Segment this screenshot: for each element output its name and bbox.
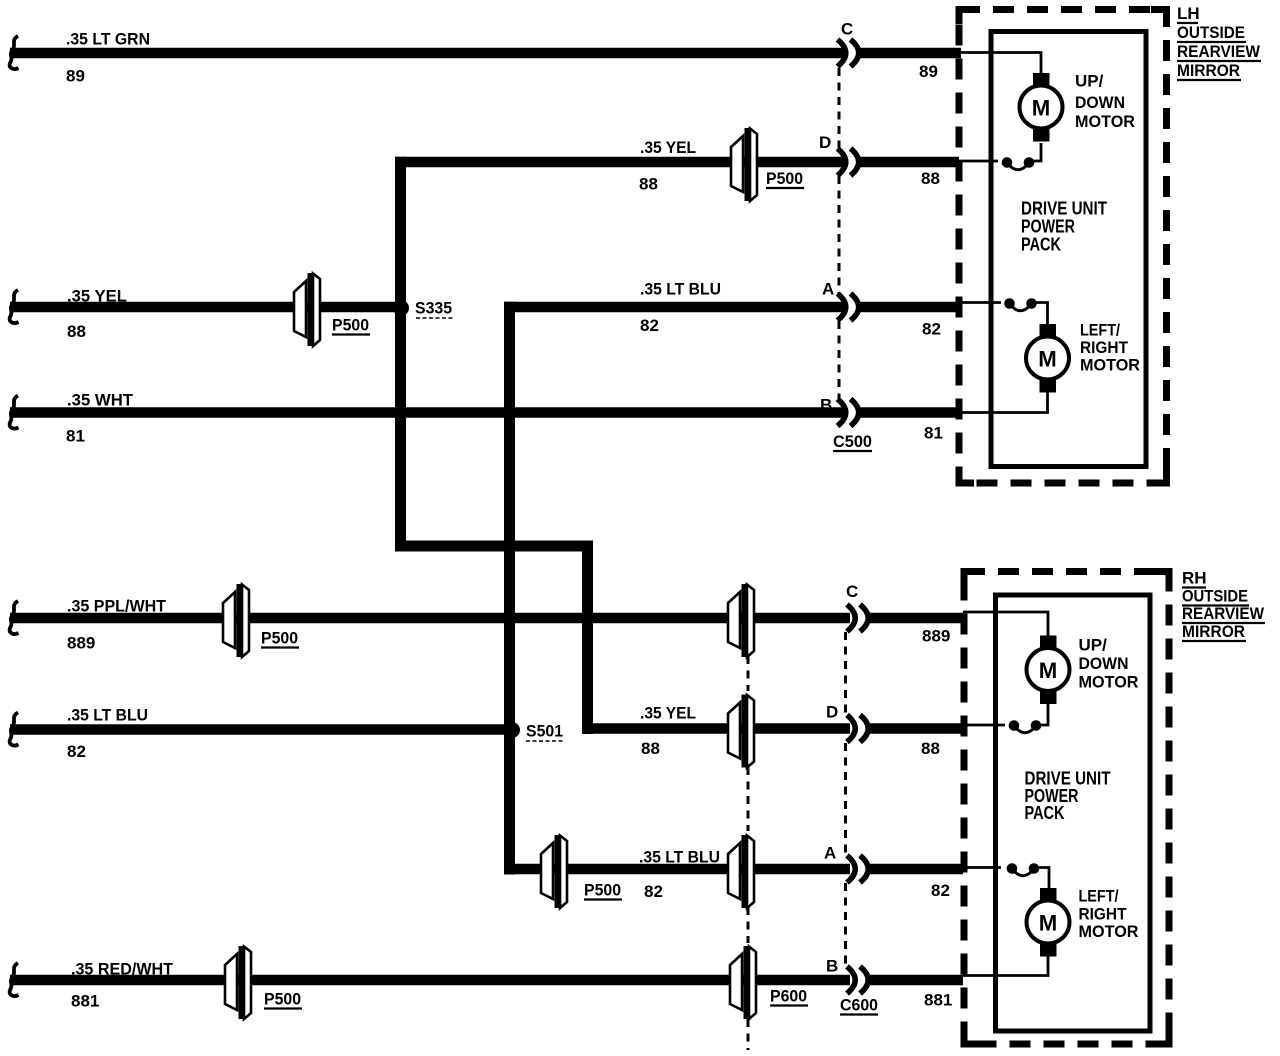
label C500 <box>833 432 872 451</box>
LH dashed box corner patches <box>959 10 1167 484</box>
dashed connector line P600 <box>747 656 750 1050</box>
svg-text:88: 88 <box>921 169 940 188</box>
label P500 row2 <box>766 169 804 188</box>
wire continuation squiggle w8 <box>10 963 19 996</box>
RH dashed box corner patches <box>964 572 1169 1045</box>
RH left/right motor wiring top with contact dots <box>963 863 1049 889</box>
wire .35 RED/WHT circuit 881 <box>10 975 850 986</box>
label S335 <box>415 299 453 319</box>
connector P500 on row3 <box>294 273 320 346</box>
label DRIVE UNIT POWER PACK (RH) <box>1025 769 1111 824</box>
svg-text:UP/: UP/ <box>1079 636 1108 655</box>
wire continuation squiggle w4 <box>10 396 19 429</box>
inline connector C500 pin A chevrons <box>838 294 859 321</box>
motor M up/down (LH) <box>1020 73 1063 142</box>
svg-text:B: B <box>826 957 838 976</box>
svg-text:DOWN: DOWN <box>1079 654 1129 673</box>
wire 88 to RH mirror <box>870 723 963 734</box>
svg-text:.35 PPL/WHT: .35 PPL/WHT <box>67 597 167 616</box>
svg-text:.35 LT BLU: .35 LT BLU <box>640 280 721 299</box>
inline connector C600 pin A chevrons <box>847 856 868 883</box>
svg-text:88: 88 <box>639 175 658 194</box>
svg-text:C: C <box>846 582 858 601</box>
wire .35 YEL circuit 88 row2 from trunk <box>395 157 847 168</box>
svg-text:.35 LT BLU: .35 LT BLU <box>639 848 720 867</box>
label DRIVE UNIT POWER PACK (LH) <box>1021 199 1107 255</box>
svg-text:P600: P600 <box>770 987 807 1006</box>
label P600 <box>770 987 808 1006</box>
svg-text:89: 89 <box>66 67 85 86</box>
connector P600 on row5 <box>728 584 754 657</box>
svg-text:P500: P500 <box>584 881 621 900</box>
svg-text:MOTOR: MOTOR <box>1079 673 1139 692</box>
connector P600 on row7 <box>728 835 754 908</box>
label RH OUTSIDE REARVIEW MIRROR <box>1182 569 1265 642</box>
inline connector C500 pin B chevrons <box>838 399 859 426</box>
svg-text:S335: S335 <box>415 299 452 318</box>
svg-text:889: 889 <box>67 634 95 653</box>
svg-text:881: 881 <box>71 992 99 1011</box>
svg-text:.35 RED/WHT: .35 RED/WHT <box>71 960 174 979</box>
svg-text:MIRROR: MIRROR <box>1182 622 1245 641</box>
svg-text:81: 81 <box>924 424 943 443</box>
label UP/DOWN MOTOR (RH) <box>1079 636 1139 692</box>
wire 88 to LH mirror <box>860 157 960 168</box>
inline connector C600 pin D chevrons <box>847 715 868 742</box>
svg-text:.35 YEL: .35 YEL <box>67 287 127 306</box>
wire 82 to RH mirror <box>870 864 963 875</box>
label UP/DOWN MOTOR (LH) <box>1075 72 1135 132</box>
splice S501 <box>504 722 520 738</box>
wire continuation squiggle w1 <box>10 36 19 69</box>
svg-text:82: 82 <box>931 881 950 900</box>
wire .35 LT BLU circuit 82 row3 right <box>504 302 847 313</box>
dashed connector line C500 <box>838 68 841 399</box>
svg-text:P500: P500 <box>261 629 298 648</box>
svg-text:MIRROR: MIRROR <box>1177 61 1240 80</box>
wire 89 to LH mirror <box>860 48 962 59</box>
svg-text:.35 LT BLU: .35 LT BLU <box>67 706 148 725</box>
svg-text:C500: C500 <box>833 432 872 451</box>
svg-text:PACK: PACK <box>1025 803 1065 823</box>
svg-text:OUTSIDE: OUTSIDE <box>1177 23 1245 42</box>
LH outside rearview mirror dashed box <box>959 10 1167 484</box>
svg-text:REARVIEW: REARVIEW <box>1177 42 1261 61</box>
motor M up/down (RH) <box>1027 636 1070 705</box>
svg-text:S501: S501 <box>526 722 563 741</box>
motor M left/right (RH) <box>1027 888 1070 957</box>
wire 81 to LH mirror <box>860 407 962 418</box>
connector P500 on row2 <box>731 128 757 201</box>
label LEFT/RIGHT MOTOR (RH) <box>1079 887 1139 942</box>
svg-text:PACK: PACK <box>1021 235 1061 255</box>
svg-text:MOTOR: MOTOR <box>1075 112 1135 131</box>
connector P500 on row5 <box>223 584 249 657</box>
svg-text:RH: RH <box>1182 569 1207 588</box>
svg-text:881: 881 <box>924 991 952 1010</box>
svg-text:MOTOR: MOTOR <box>1079 922 1139 941</box>
label S501 <box>526 722 563 742</box>
wire .35 YEL circuit 88 row3 left <box>10 302 397 313</box>
svg-text:B: B <box>820 396 832 415</box>
svg-text:D: D <box>819 133 831 152</box>
inline connector C600 pin C chevrons <box>847 605 868 632</box>
connector P500 on row7 <box>541 835 567 908</box>
RH drive unit power pack box <box>996 595 1151 1031</box>
svg-text:RIGHT: RIGHT <box>1080 338 1129 357</box>
svg-text:.35 WHT: .35 WHT <box>67 391 134 410</box>
label C600 <box>840 996 878 1015</box>
trunk wire T1b vertical to RH D <box>582 541 593 735</box>
RH outside rearview mirror dashed box <box>964 572 1169 1045</box>
wire continuation squiggle w5 <box>10 601 19 634</box>
label LH OUTSIDE REARVIEW MIRROR <box>1177 4 1261 80</box>
wire continuation squiggle w3 <box>10 290 19 323</box>
svg-text:88: 88 <box>921 739 940 758</box>
svg-text:.35 YEL: .35 YEL <box>640 138 696 157</box>
wire .35 LT BLU circuit 82 row6 left <box>10 724 506 735</box>
label LEFT/RIGHT MOTOR (LH) <box>1080 321 1140 375</box>
svg-text:82: 82 <box>644 882 663 901</box>
svg-text:D: D <box>826 703 838 722</box>
svg-text:89: 89 <box>919 62 938 81</box>
svg-text:82: 82 <box>67 742 86 761</box>
wire .35 PPL/WHT circuit 889 <box>10 613 850 624</box>
svg-text:82: 82 <box>640 316 659 335</box>
wire .35 LT BLU circuit 82 row7 <box>504 864 850 875</box>
inline connector C500 pin D chevrons <box>838 149 859 176</box>
svg-text:P500: P500 <box>332 316 369 335</box>
svg-text:LH: LH <box>1177 4 1200 23</box>
label P500 row8 <box>264 990 302 1009</box>
svg-text:.35 YEL: .35 YEL <box>640 704 696 723</box>
svg-text:889: 889 <box>922 627 950 646</box>
label P500 row5 <box>261 629 299 648</box>
wire 889 to RH mirror <box>870 613 963 624</box>
trunk wire T1 vertical from row2 <box>395 157 406 552</box>
svg-text:MOTOR: MOTOR <box>1080 356 1140 375</box>
wire 881 to RH mirror <box>870 975 963 986</box>
trunk wire T1 jog horizontal <box>395 541 593 552</box>
svg-text:UP/: UP/ <box>1075 72 1104 91</box>
RH left/right motor wiring bottom <box>963 956 1048 976</box>
wire .35 LT GRN circuit 89 left segment <box>10 48 847 59</box>
svg-text:88: 88 <box>67 322 86 341</box>
svg-text:OUTSIDE: OUTSIDE <box>1182 587 1248 606</box>
svg-text:P500: P500 <box>766 169 803 188</box>
connector P600 on row8 <box>730 946 756 1019</box>
svg-text:C600: C600 <box>840 996 878 1015</box>
svg-text:P500: P500 <box>264 990 301 1009</box>
svg-text:REARVIEW: REARVIEW <box>1182 604 1265 623</box>
LH drive unit power pack box <box>991 32 1146 467</box>
wire .35 YEL circuit 88 row6 right <box>582 723 850 734</box>
RH up/down motor wiring top <box>963 612 1048 636</box>
LH up/down motor wiring bottom with contact dots <box>959 143 1041 170</box>
label P500 row7 <box>584 881 622 900</box>
svg-text:A: A <box>822 280 834 299</box>
connector P600 on row6 <box>728 695 754 768</box>
LH left/right motor wiring top with contact dots <box>959 298 1048 324</box>
svg-text:DRIVE UNIT: DRIVE UNIT <box>1021 199 1107 219</box>
svg-text:C: C <box>841 20 853 39</box>
connector P500 on row8 <box>225 946 251 1019</box>
splice S335 <box>393 300 409 316</box>
label P500 row3 <box>332 316 370 335</box>
LH left/right motor wiring bottom <box>959 392 1048 413</box>
svg-text:POWER: POWER <box>1021 217 1075 237</box>
svg-text:88: 88 <box>641 739 660 758</box>
svg-text:LEFT/: LEFT/ <box>1079 887 1119 906</box>
svg-text:81: 81 <box>66 427 85 446</box>
svg-text:DOWN: DOWN <box>1075 93 1125 112</box>
svg-text:A: A <box>824 844 836 863</box>
inline connector C500 pin C chevrons <box>838 40 859 67</box>
LH up/down motor wiring top <box>959 53 1041 74</box>
dashed connector line C600 <box>844 632 847 965</box>
wire .35 WHT circuit 81 <box>10 407 847 418</box>
svg-text:LEFT/: LEFT/ <box>1080 321 1120 340</box>
RH up/down motor wiring bottom with contact dots <box>963 704 1048 733</box>
wire continuation squiggle w6 <box>10 713 19 746</box>
inline connector C600 pin B chevrons <box>847 967 868 994</box>
wire 82 to LH mirror <box>860 302 962 313</box>
svg-text:RIGHT: RIGHT <box>1079 905 1128 924</box>
trunk wire T2 vertical from row3 to RH A <box>504 302 515 875</box>
svg-text:82: 82 <box>922 320 941 339</box>
motor M left/right (LH) <box>1026 324 1069 393</box>
svg-text:.35 LT GRN: .35 LT GRN <box>66 30 150 49</box>
